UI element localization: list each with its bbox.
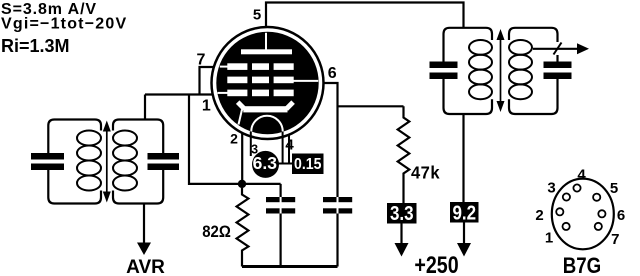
svg-text:3: 3 [251, 142, 258, 156]
svg-text:4: 4 [577, 167, 586, 184]
svg-text:47k: 47k [411, 162, 440, 183]
svg-text:+250: +250 [414, 251, 458, 276]
svg-text:82Ω: 82Ω [202, 223, 231, 241]
svg-text:Ri=1.3M: Ri=1.3M [1, 36, 70, 56]
svg-text:Vgi=−1tot−20V: Vgi=−1tot−20V [1, 16, 127, 33]
svg-text:6: 6 [617, 207, 625, 224]
svg-text:7: 7 [197, 52, 206, 69]
svg-text:0.15: 0.15 [294, 155, 321, 173]
svg-text:3: 3 [547, 180, 555, 197]
svg-text:5: 5 [610, 180, 618, 197]
svg-text:B7G: B7G [563, 255, 601, 276]
svg-text:3.3: 3.3 [390, 202, 414, 225]
svg-text:4: 4 [285, 136, 294, 153]
svg-text:2: 2 [535, 207, 543, 224]
svg-text:5: 5 [253, 7, 261, 24]
svg-text:1: 1 [545, 230, 553, 247]
svg-text:AVR: AVR [126, 257, 165, 276]
svg-text:6: 6 [328, 65, 337, 82]
svg-text:1: 1 [202, 98, 211, 115]
svg-text:9.2: 9.2 [452, 201, 476, 224]
svg-text:7: 7 [611, 231, 619, 248]
svg-text:2: 2 [230, 131, 238, 147]
